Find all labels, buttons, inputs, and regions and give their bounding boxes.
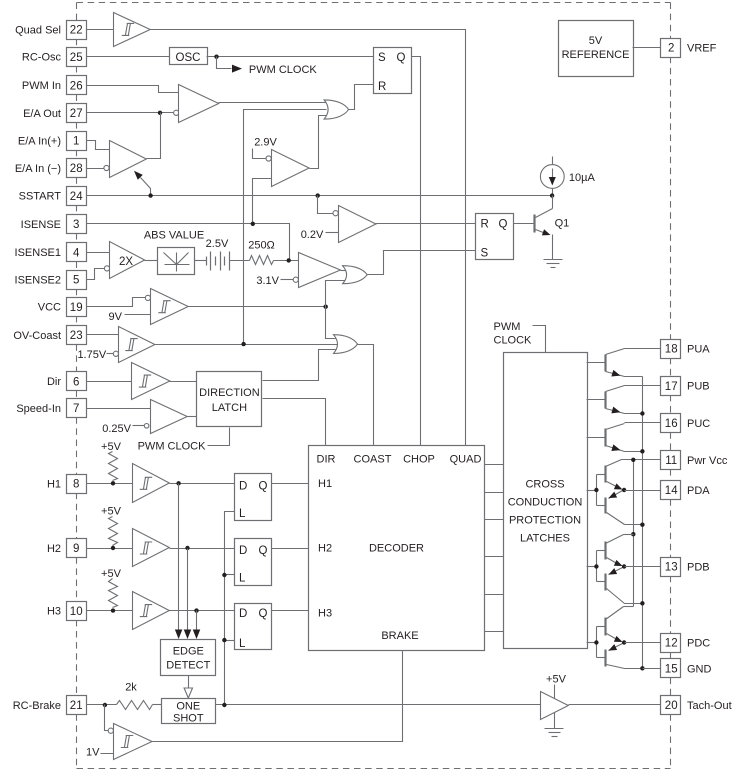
pin 16 (PUC)	[661, 414, 711, 433]
wire decoder-to-latches bus 6	[485, 631, 504, 633]
svg-text:PDA: PDA	[687, 485, 710, 497]
svg-text:Pwr Vcc: Pwr Vcc	[687, 455, 728, 467]
wire pin 23 to Schmitt U13	[87, 334, 119, 336]
comparator U4 (PWM comparator)	[174, 85, 219, 123]
svg-text:H3: H3	[47, 606, 61, 618]
wire pin 11 Pwr Vcc line	[622, 459, 661, 461]
svg-text:Q: Q	[259, 481, 268, 493]
svg-text:1: 1	[73, 136, 79, 148]
svg-text:ABS VALUE: ABS VALUE	[144, 230, 204, 242]
wire U16 output to DIRECTION LATCH	[188, 416, 197, 418]
Schmitt U24 (RC-Brake, 1V)	[108, 724, 152, 760]
wire H3 to EDGE DETECT	[193, 611, 201, 640]
pin 27 (E/A Out)	[23, 104, 86, 123]
3.1V label and wire to U10 - input	[256, 275, 293, 287]
wire U11 output to latch U25 S input	[368, 251, 476, 275]
amplifier U9 (2X)	[104, 242, 144, 279]
svg-text:Q: Q	[259, 608, 268, 620]
svg-text:GND: GND	[687, 663, 712, 675]
wire I1 to SSTART node	[552, 189, 554, 196]
node Q4 emitter on rail	[640, 449, 644, 453]
svg-text:SHOT: SHOT	[173, 713, 204, 725]
node H3 edge-detect tap	[194, 608, 198, 612]
svg-text:21: 21	[70, 700, 83, 712]
pin 22 (Quad Sel)	[15, 21, 86, 40]
svg-text:2: 2	[668, 43, 674, 55]
wire QUAD net: U1 output to DECODER QUAD input	[151, 30, 466, 446]
wire comparator U7 output to OR U6 lower input	[310, 116, 327, 169]
pin 12 (PDC)	[661, 634, 711, 653]
svg-text:PDC: PDC	[687, 638, 710, 650]
wire H2 to EDGE DETECT	[184, 549, 192, 640]
wire pin 28 to U5 - input	[87, 168, 104, 170]
svg-text:8: 8	[73, 479, 79, 491]
wire pin 6 to Schmitt U15	[87, 381, 132, 383]
svg-text:CONDUCTION: CONDUCTION	[508, 497, 583, 509]
transistor Q1	[535, 196, 570, 260]
svg-text:H2: H2	[47, 543, 61, 555]
svg-text:2k: 2k	[125, 682, 137, 694]
pin 13 (PDB)	[661, 558, 710, 577]
wire decoder-to-latches bus 5	[485, 594, 504, 596]
node SSTART / Q1 collector	[550, 193, 554, 197]
wire pin 26 to comparator U4 + input	[87, 86, 179, 93]
ONE SHOT block	[162, 699, 216, 725]
svg-text:LATCH: LATCH	[212, 402, 247, 414]
svg-text:PWM In: PWM In	[22, 80, 61, 92]
buffer U26 (Tach-Out)	[541, 692, 569, 720]
pin 15 (GND)	[661, 659, 712, 678]
node PDB collector tap	[631, 532, 635, 536]
wire U26 output to pin 20	[569, 704, 661, 706]
current source I1 (10uA)	[540, 157, 595, 189]
wire DIRECTION LATCH out to OR U14 lower input	[263, 350, 337, 381]
IC boundary (dashed outline)	[77, 3, 671, 769]
wire CHOP net: U3 Q output to DECODER CHOP input	[412, 57, 421, 446]
pin 11 (Pwr Vcc)	[661, 451, 728, 470]
pin 17 (PUB)	[661, 377, 710, 396]
wire pin 8 to Schmitt	[87, 483, 133, 485]
wire PDB base drive	[587, 551, 606, 582]
DECODER block	[309, 446, 485, 651]
node H2 edge-detect tap	[185, 546, 189, 550]
svg-text:Tach-Out: Tach-Out	[687, 700, 732, 712]
svg-text:CLOCK: CLOCK	[494, 335, 533, 347]
svg-text:E/A Out: E/A Out	[23, 108, 61, 120]
wire decoder-to-latches bus 2	[485, 492, 504, 494]
svg-text:13: 13	[665, 562, 678, 574]
svg-text:PUC: PUC	[687, 418, 710, 430]
svg-text:PWM CLOCK: PWM CLOCK	[249, 64, 318, 76]
D latch U23 (H3)	[235, 604, 272, 651]
svg-text:H3: H3	[318, 608, 332, 620]
Pwr Vcc rail (output stage)	[633, 460, 635, 607]
svg-text:R: R	[378, 81, 386, 93]
wire U13 output to OR U14	[155, 344, 338, 346]
svg-text:22: 22	[70, 25, 83, 37]
pin 19 (VCC)	[38, 298, 87, 317]
svg-text:15: 15	[665, 664, 678, 676]
svg-text:25: 25	[70, 52, 83, 64]
wire VCC node up to OR U11 lower input	[326, 281, 346, 307]
ground at Q1 emitter	[544, 259, 563, 261]
ABS VALUE block	[144, 230, 204, 275]
svg-text:BRAKE: BRAKE	[381, 630, 418, 642]
wire Schmitt to D latch U23	[170, 610, 235, 612]
wire Schmitt to D latch U21	[170, 483, 235, 485]
svg-text:1.75V: 1.75V	[77, 349, 106, 361]
svg-text:S: S	[378, 52, 386, 64]
svg-text:24: 24	[70, 191, 83, 203]
Schmitt U13 (H3 input)	[133, 592, 170, 630]
svg-text:H1: H1	[47, 478, 61, 490]
svg-text:PWM CLOCK: PWM CLOCK	[138, 441, 207, 453]
transistor Q6 (PDA lower PNP)	[606, 491, 643, 525]
wire decoder-to-latches bus 3	[485, 519, 504, 521]
svg-text:OSC: OSC	[176, 52, 201, 64]
battery V1 (2.5V)	[206, 238, 230, 271]
pin 3 (ISENSE)	[21, 215, 87, 234]
wire ONE SHOT output to Tach buffer U26	[216, 704, 541, 706]
DIRECTION LATCH block	[197, 372, 262, 427]
node SSTART to E/A arrow	[148, 193, 152, 197]
pin 20 (Tach-Out)	[661, 696, 732, 715]
svg-text:QUAD: QUAD	[450, 454, 482, 466]
wire Q4 collector to pin	[625, 422, 661, 424]
wire pin 27 (E/A Out) to U4 - input	[87, 112, 174, 114]
OR gate U6	[324, 100, 349, 119]
node PDA base	[594, 488, 598, 492]
svg-text:10: 10	[70, 606, 83, 618]
svg-text:DIRECTION: DIRECTION	[199, 387, 260, 399]
svg-text:26: 26	[70, 80, 83, 92]
pin 1 (E/A In(+))	[18, 132, 87, 151]
svg-text:Quad Sel: Quad Sel	[15, 24, 61, 36]
resistor R1 (+5V pull-up, H1)	[101, 441, 122, 481]
wire PDA output to pin	[625, 490, 661, 492]
svg-text:2.9V: 2.9V	[254, 137, 277, 149]
transistor Q5 (PDA upper NPN)	[606, 460, 623, 490]
wire pin 21 to R4	[87, 704, 117, 706]
svg-text:CROSS: CROSS	[525, 479, 564, 491]
resistor R5 (250&#937;)	[248, 240, 275, 265]
svg-text:VREF: VREF	[687, 43, 717, 55]
svg-text:Q: Q	[499, 219, 508, 231]
svg-text:ISENSE1: ISENSE1	[15, 247, 61, 259]
svg-text:19: 19	[70, 302, 83, 314]
svg-text:10µA: 10µA	[569, 172, 596, 184]
svg-text:R: R	[481, 219, 489, 231]
svg-text:12: 12	[665, 638, 678, 650]
svg-text:28: 28	[70, 163, 83, 175]
svg-text:REFERENCE: REFERENCE	[562, 49, 630, 61]
node H1 edge-detect tap	[176, 481, 180, 485]
pin 18 (PUA)	[661, 340, 711, 359]
wire U12 output to OR gates	[189, 306, 326, 308]
svg-text:18: 18	[665, 344, 678, 356]
wire GND pin 15 line	[643, 668, 661, 670]
2.9V reference label and wire to U7	[253, 137, 278, 159]
svg-text:27: 27	[70, 108, 83, 120]
wire U10 output to OR U11	[341, 270, 346, 272]
pin 28 (E/A In (-))	[15, 159, 87, 178]
svg-text:3: 3	[73, 219, 79, 231]
wire ABS VALUE to battery	[195, 260, 207, 262]
svg-text:ISENSE: ISENSE	[21, 219, 61, 231]
wire Q2 emitter to GND rail	[625, 376, 643, 378]
wire H1 to EDGE DETECT	[175, 484, 183, 640]
svg-text:RC-Brake: RC-Brake	[13, 700, 61, 712]
wire U21 Q to DECODER H1	[272, 483, 309, 485]
pin 7 (Speed-In)	[16, 399, 86, 418]
svg-text:CHOP: CHOP	[403, 454, 435, 466]
svg-text:D: D	[239, 545, 247, 557]
wire pin 3 ISENSE to current comparator node	[87, 224, 290, 261]
wire COAST net: U14 output to DECODER COAST input	[358, 345, 374, 446]
wire PDC base drive	[587, 627, 606, 658]
svg-text:+5V: +5V	[546, 674, 567, 686]
+5V supply to buffer U26	[546, 674, 567, 699]
transistor Q10 (PDC lower PNP)	[606, 644, 643, 669]
wire BRAKE net: U24 output to DECODER BRAKE input	[153, 651, 403, 742]
node PDC PNP collector on rail	[640, 666, 644, 670]
wire battery to resistor R5	[230, 260, 250, 262]
wire pin 25 to OSC	[87, 56, 170, 58]
svg-text:SSTART: SSTART	[19, 191, 62, 203]
wire U23 Q to DECODER H3	[272, 610, 309, 612]
svg-text:17: 17	[665, 381, 678, 393]
svg-text:S: S	[481, 248, 489, 260]
svg-text:11: 11	[665, 455, 677, 467]
svg-text:+5V: +5V	[101, 506, 122, 518]
node PDC output	[622, 640, 626, 644]
transistor Q2 (PUA driver)	[587, 349, 625, 377]
svg-text:7: 7	[73, 403, 79, 415]
wire OSC output to latch U3 S input	[207, 56, 374, 58]
GND rail (output stage)	[642, 377, 644, 669]
PWM CLOCK annotation (cross-conduction clock)	[494, 321, 546, 353]
node L net at U22	[222, 573, 226, 577]
comparator U16 (Speed-In, 0.25V)	[144, 400, 187, 434]
CROSS CONDUCTION PROTECTION LATCHES block	[504, 353, 588, 649]
node PDB base	[594, 564, 598, 568]
svg-text:Dir: Dir	[47, 376, 61, 388]
svg-text:D: D	[239, 481, 247, 493]
wire pin 4 to amp U9 + input	[87, 252, 110, 254]
transistor Q9 (PDC upper NPN)	[606, 607, 634, 643]
PWM CLOCK arrow annotation	[217, 57, 318, 77]
wire SSTART pin 24 to Q1 collector node	[87, 195, 553, 197]
5V REFERENCE block	[559, 21, 634, 77]
wire U6 output to latch U3 R input	[349, 85, 374, 110]
svg-text:COAST: COAST	[354, 454, 392, 466]
svg-text:6: 6	[73, 376, 79, 388]
svg-text:+5V: +5V	[101, 568, 122, 580]
node H1 pull-up junction	[111, 481, 115, 485]
wire Q2 collector to pin	[625, 348, 661, 350]
ground at buffer U26	[545, 713, 564, 737]
wire 5V REFERENCE to pin 2	[633, 47, 661, 49]
pin 10 (H3)	[47, 602, 87, 621]
svg-text:VCC: VCC	[38, 302, 61, 314]
svg-text:2.5V: 2.5V	[206, 238, 229, 250]
resistor R4 (2k)	[117, 682, 153, 710]
wire L stub U23	[225, 640, 235, 642]
pin 24 (SSTART)	[19, 187, 87, 206]
svg-text:Speed-In: Speed-In	[16, 403, 61, 415]
svg-text:4: 4	[73, 247, 80, 259]
wire L stub U22	[225, 574, 235, 576]
EDGE DETECT block	[161, 640, 216, 676]
svg-text:9: 9	[73, 543, 79, 555]
wire Q3 collector to pin	[625, 385, 661, 387]
wire R5 to comparator U10 + input	[274, 260, 299, 262]
pin 25 (RC-Osc)	[22, 48, 87, 67]
9V label and wire to U12 lower input	[109, 311, 151, 323]
wire RC-Brake to Schmitt U24 - input	[105, 705, 109, 731]
resistor R3 (+5V pull-up, H3)	[101, 568, 122, 607]
pin 23 (OV-Coast)	[13, 326, 86, 345]
comparator U7 (2.9V)	[266, 150, 309, 187]
svg-text:DIR: DIR	[317, 454, 336, 466]
pin 26 (PWM In)	[22, 76, 87, 95]
wire decoder-to-latches bus 4	[485, 556, 504, 558]
node PDB PNP collector on rail	[640, 601, 644, 605]
wire DIR net: DIRECTION LATCH to DECODER DIR input	[263, 399, 326, 446]
svg-text:DECODER: DECODER	[369, 543, 424, 555]
pin 9 (H2)	[47, 539, 87, 558]
resistor R2 (+5V pull-up, H2)	[101, 506, 122, 546]
transistor Q3 (PUB driver)	[587, 386, 625, 414]
svg-text:E/A In(+): E/A In(+)	[18, 135, 61, 147]
wire PDC output to pin	[625, 642, 661, 644]
svg-text:L: L	[239, 638, 246, 650]
node SSTART to comparator U8	[316, 193, 320, 197]
node ISENSE / U7 tap	[251, 222, 255, 226]
svg-text:L: L	[239, 573, 246, 585]
svg-text:DETECT: DETECT	[166, 660, 210, 672]
svg-text:L: L	[239, 508, 246, 520]
Schmitt U12 (H2 input)	[133, 529, 170, 567]
node RC-Brake junction	[103, 703, 107, 707]
svg-text:5: 5	[73, 275, 79, 287]
svg-text:Q1: Q1	[555, 218, 570, 230]
wire decoder-to-latches bus 1	[485, 464, 504, 466]
svg-text:5V: 5V	[589, 35, 603, 47]
wire pin 9 to Schmitt	[87, 548, 133, 550]
wire SSTART to U8 - input	[318, 196, 333, 214]
svg-text:OV-Coast: OV-Coast	[13, 330, 61, 342]
svg-text:0.2V: 0.2V	[301, 229, 324, 241]
wire Q3 emitter to GND rail	[625, 413, 643, 415]
svg-text:PWM: PWM	[494, 321, 521, 333]
wire U15 output to DIRECTION LATCH	[170, 381, 197, 383]
wire EDGE DETECT to ONE SHOT (open arrow)	[184, 676, 192, 699]
OR gate U11	[343, 266, 368, 284]
wire pin 19 to Schmitt U12	[87, 298, 146, 307]
svg-text:3.1V: 3.1V	[256, 275, 279, 287]
svg-text:EDGE: EDGE	[173, 646, 204, 658]
svg-text:14: 14	[665, 485, 678, 497]
pin 21 (RC-Brake)	[13, 696, 87, 715]
svg-text:H1: H1	[318, 478, 332, 490]
0.25V label and wire to U16 - input	[102, 423, 144, 435]
svg-text:D: D	[239, 608, 247, 620]
wire PDA base drive	[587, 475, 606, 506]
arrow SSTART control into U5	[134, 171, 151, 196]
node PDB output	[622, 564, 626, 568]
node H3 pull-up junction	[111, 608, 115, 612]
svg-text:LATCHES: LATCHES	[520, 533, 570, 545]
svg-text:9V: 9V	[109, 311, 123, 323]
wire U22 Q to DECODER H2	[272, 548, 309, 550]
D latch U22 (H2)	[235, 539, 272, 586]
svg-text:1V: 1V	[86, 747, 100, 759]
wire R4 to ONE SHOT	[153, 704, 162, 706]
svg-text:16: 16	[665, 418, 678, 430]
wire Schmitt to D latch U22	[170, 548, 235, 550]
0.2V label and wire to U8 + input	[301, 229, 339, 241]
OR gate U14 (coast)	[334, 335, 358, 354]
node PDC base	[594, 640, 598, 644]
wire U25 Q to Q1 base	[514, 223, 535, 225]
PWM CLOCK input annotation (direction latch clock)	[138, 428, 230, 453]
wire latch-enable net from ONE SHOT to L inputs	[225, 512, 235, 705]
svg-text:ONE: ONE	[176, 701, 200, 713]
svg-text:+5V: +5V	[101, 441, 122, 453]
svg-text:E/A In (−): E/A In (−)	[15, 163, 61, 175]
Schmitt buffer U1 (Quad Sel)	[114, 13, 151, 47]
svg-text:0.25V: 0.25V	[102, 423, 131, 435]
transistor Q4 (PUC driver)	[587, 424, 625, 452]
wire pin 1 to error amp U5 + input	[87, 141, 110, 150]
Schmitt U12 (VCC monitor)	[145, 289, 188, 325]
D latch U21 (H1)	[235, 474, 272, 521]
node PDA PNP collector on rail	[640, 523, 644, 527]
node H2 pull-up junction	[111, 546, 115, 550]
wire U7 + input to ISENSE net	[253, 179, 272, 224]
node L net at U23	[222, 638, 226, 642]
node one-shot / L net junction	[222, 703, 226, 707]
comparator U8 (0.2V)	[333, 206, 376, 243]
pin 5 (ISENSE2)	[15, 271, 87, 290]
pin 14 (PDA)	[661, 481, 711, 500]
wire U9 output to ABS VALUE	[145, 260, 158, 262]
wire pin 10 to Schmitt	[87, 610, 133, 612]
wire pin 7 to comparator U16 + input	[87, 408, 151, 410]
wire VCC node down to OR U14 top input	[326, 307, 337, 339]
svg-text:RC-Osc: RC-Osc	[22, 52, 62, 64]
node PWM CLOCK tap on OSC output	[214, 55, 218, 59]
svg-text:Q: Q	[259, 545, 268, 557]
node E/A Out junction	[158, 111, 162, 115]
node VCC monitor out	[324, 305, 328, 309]
node Pwr Vcc rail junction	[631, 458, 635, 462]
wire Q4 emitter to GND rail	[625, 451, 643, 453]
1V label and wire to U24 lower input	[86, 747, 122, 759]
svg-text:2X: 2X	[119, 256, 133, 268]
transistor Q7 (PDB upper NPN)	[606, 535, 634, 567]
error amp U5 (E/A)	[104, 141, 146, 178]
wire U8 output to latch U25 R input	[376, 223, 476, 225]
wire pin 22 to Schmitt U1	[87, 29, 114, 31]
svg-text:250Ω: 250Ω	[248, 240, 275, 252]
svg-text:Q: Q	[397, 52, 406, 64]
wire E/A Out to error amp U5 output	[147, 113, 161, 159]
transistor Q8 (PDB lower PNP)	[606, 568, 643, 604]
wire OV/E-A node to OR gate U6 middle input	[244, 110, 327, 345]
pin 4 (ISENSE1)	[15, 243, 87, 262]
